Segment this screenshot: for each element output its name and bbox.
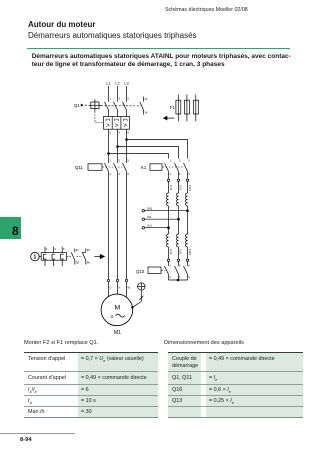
svg-text:Q13: Q13 <box>136 269 145 274</box>
svg-text:1U2: 1U2 <box>169 249 173 255</box>
svg-text:2: 2 <box>169 172 171 176</box>
svg-text:K1: K1 <box>141 165 147 170</box>
svg-text:1: 1 <box>169 158 171 162</box>
svg-text:1V1: 1V1 <box>179 185 183 191</box>
svg-text:Q1: Q1 <box>74 103 80 108</box>
svg-text:3: 3 <box>118 158 120 162</box>
svg-text:3: 3 <box>118 97 120 101</box>
svg-text:4: 4 <box>118 130 120 134</box>
svg-text:6: 6 <box>127 130 129 134</box>
svg-text:4: 4 <box>118 172 120 176</box>
svg-text:2U1: 2U1 <box>147 224 152 228</box>
svg-text:W: W <box>128 286 131 290</box>
svg-text:96: 96 <box>87 260 90 264</box>
svg-text:M: M <box>114 305 120 312</box>
svg-text:3: 3 <box>110 314 113 320</box>
svg-text:4: 4 <box>179 275 181 279</box>
svg-text:6: 6 <box>63 247 65 251</box>
svg-text:Q11: Q11 <box>75 165 83 170</box>
svg-text:5: 5 <box>188 263 190 267</box>
svg-text:6: 6 <box>127 172 129 176</box>
svg-text:2V1: 2V1 <box>147 215 152 219</box>
svg-text:L2: L2 <box>115 81 119 86</box>
svg-text:6: 6 <box>188 172 190 176</box>
svg-text:1: 1 <box>109 158 111 162</box>
svg-text:14: 14 <box>144 111 147 115</box>
svg-text:5: 5 <box>127 158 129 162</box>
svg-text:2: 2 <box>109 130 111 134</box>
svg-text:3: 3 <box>179 158 181 162</box>
svg-text:5: 5 <box>188 158 190 162</box>
svg-text:2: 2 <box>109 172 111 176</box>
svg-text:M1: M1 <box>114 330 121 336</box>
svg-text:L3: L3 <box>124 81 128 86</box>
svg-text:V: V <box>119 286 121 290</box>
svg-text:1W2: 1W2 <box>188 249 192 255</box>
svg-text:1U1: 1U1 <box>169 185 173 191</box>
svg-text:2: 2 <box>46 247 48 251</box>
svg-text:6: 6 <box>188 275 190 279</box>
svg-text:2W1: 2W1 <box>147 207 153 211</box>
svg-text:U: U <box>110 286 112 290</box>
svg-text:1V2: 1V2 <box>179 249 183 255</box>
svg-text:1: 1 <box>169 263 171 267</box>
svg-text:F1: F1 <box>170 105 176 110</box>
svg-text:1: 1 <box>109 97 111 101</box>
svg-text:4: 4 <box>179 172 181 176</box>
svg-text:5: 5 <box>127 97 129 101</box>
svg-text:98: 98 <box>76 260 79 264</box>
svg-text:97: 97 <box>76 248 79 252</box>
svg-text:1W1: 1W1 <box>188 185 192 191</box>
svg-text:13: 13 <box>144 97 147 101</box>
svg-text:95: 95 <box>87 248 90 252</box>
svg-text:2: 2 <box>169 275 171 279</box>
svg-text:L1: L1 <box>106 81 110 86</box>
svg-text:3: 3 <box>179 263 181 267</box>
svg-text:1: 1 <box>33 255 36 261</box>
svg-text:4: 4 <box>54 247 56 251</box>
